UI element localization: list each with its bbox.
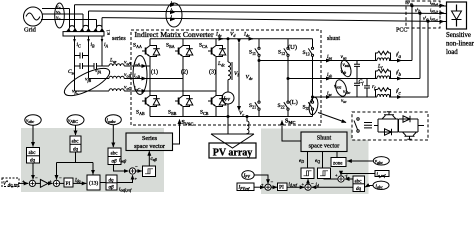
wire injection leg A xyxy=(101,36,103,66)
svg-text:dq: dq xyxy=(109,179,115,184)
igbt top-left xyxy=(382,112,396,119)
ellipse around S33 xyxy=(308,97,319,116)
abc-dq box 1 xyxy=(27,148,40,164)
divider box3 xyxy=(108,156,121,158)
current arrow i_c xyxy=(170,18,175,20)
svg-text:Series: Series xyxy=(142,135,158,142)
wire shunt to PCC b xyxy=(419,13,421,78)
arrow i_NLc xyxy=(439,21,444,23)
V_dc measure arrow xyxy=(238,43,240,111)
junction line b col2 xyxy=(287,78,289,80)
sensor ellipse v_abc xyxy=(25,115,41,125)
svg-text:PI: PI xyxy=(66,181,71,187)
node PCC a xyxy=(411,5,413,7)
node ellipse v_sab (tilted) xyxy=(339,59,353,78)
inverter column 3 xyxy=(312,39,314,117)
wire box3 to sum3 xyxy=(114,165,129,172)
svg-text:iNL,b: iNL,b xyxy=(430,8,438,15)
node ellipse i_abc xyxy=(166,3,182,27)
sensor ellipse v_abc right xyxy=(373,157,389,165)
amp triangle xyxy=(36,182,41,184)
Vdqref dashed box xyxy=(2,178,19,187)
junction line a col1 xyxy=(258,60,260,62)
wire pv right coil xyxy=(247,117,249,135)
sum2 xyxy=(53,180,59,186)
hysteresis block c_ab xyxy=(143,166,156,177)
current arrow i_oC xyxy=(143,90,146,92)
divider box abc-dq right xyxy=(353,183,365,185)
svg-text:ib: ib xyxy=(171,8,175,14)
svg-text:Shunt: Shunt xyxy=(317,135,332,142)
svg-text:−: − xyxy=(135,164,138,169)
svg-text:SVSC: SVSC xyxy=(182,120,194,126)
current arrow i_oB xyxy=(143,78,146,80)
arrow i_sa xyxy=(327,60,331,62)
svg-text:−: − xyxy=(311,181,314,186)
svg-text:isc: isc xyxy=(327,91,332,97)
svg-text:Vdc: Vdc xyxy=(246,75,253,81)
svg-text:+: + xyxy=(135,176,138,181)
svg-text:S12: S12 xyxy=(278,50,285,56)
svg-text:SAA: SAA xyxy=(133,43,142,49)
wire grid phase b in xyxy=(43,13,84,15)
inverter column 2 xyxy=(287,39,289,117)
abc-dq box right xyxy=(353,176,365,192)
svg-text:vfA: vfA xyxy=(95,68,102,74)
PI box xyxy=(64,178,73,187)
svg-text:(U): (U) xyxy=(288,44,297,51)
svg-text:iA: iA xyxy=(104,42,109,48)
wire injection leg B xyxy=(88,36,90,79)
switch S12 xyxy=(284,47,289,56)
node ellipse v_f (tilted) xyxy=(61,63,113,101)
sensor ellipse i_oabc xyxy=(105,115,121,125)
svg-text:+: + xyxy=(302,182,305,187)
junction top rail Ldc xyxy=(227,38,229,40)
svg-text:+: + xyxy=(49,179,52,184)
svg-text:cαβ: cαβ xyxy=(151,157,157,162)
wire boxA to sum3 xyxy=(117,175,133,182)
wire sum6 to PI2 xyxy=(271,186,277,188)
switch S13 xyxy=(308,47,313,56)
node ellipse v_sbc (tilted) xyxy=(334,78,349,97)
svg-text:id: id xyxy=(316,183,319,188)
pv panel envelope icon xyxy=(211,134,254,148)
svg-text:SCA: SCA xyxy=(199,43,208,49)
control panel gray right xyxy=(261,129,369,195)
wire iq to sum4 xyxy=(345,178,353,180)
svg-text:dq: dq xyxy=(73,148,79,153)
abc-ab box 3 xyxy=(108,148,121,165)
CONTROL LEFT xyxy=(2,115,149,190)
wire grid phase a in xyxy=(42,8,70,10)
wire box1 to sum1 xyxy=(32,163,34,179)
dq-ab box A xyxy=(106,175,117,190)
svg-text:eD: eD xyxy=(299,159,304,164)
svg-text:vsa: vsa xyxy=(341,54,347,60)
series filter inductor Lse A xyxy=(102,65,109,67)
svg-text:isb: isb xyxy=(327,72,332,78)
svg-text:space vector: space vector xyxy=(134,143,165,150)
igbt S_AA xyxy=(142,44,160,58)
ac output line c xyxy=(313,96,378,98)
divider box2 xyxy=(70,143,81,145)
inverter column 1 xyxy=(258,39,260,117)
zone box xyxy=(331,158,346,167)
svg-text:SAB: SAB xyxy=(136,110,145,116)
svg-text:vsab: vsab xyxy=(343,63,351,68)
svg-text:voA: voA xyxy=(124,60,131,66)
switch symbol in box xyxy=(357,118,359,120)
svg-text:Idq: Idq xyxy=(74,179,81,184)
arrow i_fc xyxy=(398,96,402,98)
shunt space vector box xyxy=(301,132,347,152)
arrow I_dc right on rail xyxy=(249,38,253,40)
svg-text:SMC: SMC xyxy=(285,119,296,125)
gate signal S_VSC arrow xyxy=(173,120,180,145)
wire shunt to PCC c xyxy=(427,21,429,97)
svg-text:vsbc: vsbc xyxy=(343,90,351,95)
series filter inductor Lse B xyxy=(89,78,110,80)
wire i_oabc down xyxy=(112,125,114,147)
switch S22 xyxy=(284,101,289,110)
wire id to sum5 xyxy=(312,186,353,188)
svg-text:−: − xyxy=(271,180,274,185)
svg-text:IPV: IPV xyxy=(243,174,251,179)
load box xyxy=(447,2,467,29)
svg-text:dq: dq xyxy=(356,187,362,192)
svg-text:vfB: vfB xyxy=(85,77,92,83)
switch S11 xyxy=(255,47,260,56)
svg-text:vsc: vsc xyxy=(341,99,347,104)
svg-text:(13): (13) xyxy=(89,180,98,187)
wire iabc to abcdq xyxy=(365,186,373,188)
wire 13 to dqab xyxy=(100,182,106,184)
transformer T2 xyxy=(82,14,84,29)
svg-text:ioB: ioB xyxy=(134,73,141,79)
svg-text:voC: voC xyxy=(124,85,131,91)
svg-text:eQ: eQ xyxy=(315,159,320,164)
bidir switch circuit xyxy=(374,119,424,132)
svg-text:SCB: SCB xyxy=(200,110,209,116)
svg-text:iNL,a: iNL,a xyxy=(430,0,438,7)
svg-text:non-linear: non-linear xyxy=(446,41,474,48)
svg-text:−: − xyxy=(35,176,38,181)
wire hys to seriesSV xyxy=(148,151,150,166)
junction line c col3 xyxy=(312,96,314,98)
wire phase c out xyxy=(102,18,446,22)
sum1 xyxy=(29,180,35,186)
svg-text:SBB: SBB xyxy=(168,110,177,116)
wire box2 down split xyxy=(57,152,94,179)
current arrow i_b xyxy=(170,11,175,13)
svg-text:dq: dq xyxy=(30,159,36,164)
svg-text:PV array: PV array xyxy=(213,148,253,159)
hysteresis block e_Q xyxy=(318,168,331,179)
transformer T1 xyxy=(69,9,71,29)
igbt S_AB xyxy=(142,94,160,108)
wire iqref to sum4 xyxy=(341,174,375,176)
svg-text:vsb: vsb xyxy=(341,70,347,75)
switch S33 xyxy=(308,101,313,110)
svg-text:S22: S22 xyxy=(278,103,285,109)
svg-text:ioA: ioA xyxy=(134,61,141,67)
igbt bottom-right xyxy=(403,132,417,139)
svg-text:αβ: αβ xyxy=(112,160,118,165)
svg-text:IPV: IPV xyxy=(223,97,231,102)
wire v_ABC down xyxy=(75,125,77,135)
svg-text:Idc: Idc xyxy=(215,32,222,38)
svg-text:(2): (2) xyxy=(181,69,188,76)
svg-text:iabc: iabc xyxy=(376,184,383,190)
misc junctions and arrows xyxy=(27,38,365,184)
igbt S_CB xyxy=(208,94,226,108)
svg-text:shunt: shunt xyxy=(327,36,340,42)
diode top-right xyxy=(403,116,410,122)
arrow i_sb xyxy=(327,78,331,80)
ac output line a xyxy=(259,60,377,62)
svg-text:S33: S33 xyxy=(303,105,310,111)
svg-text:(L): (L) xyxy=(290,99,298,106)
svg-text:(3): (3) xyxy=(209,69,216,76)
diode bottom-left xyxy=(385,129,392,135)
wire IPV to sum6 xyxy=(254,175,268,184)
divider box1 xyxy=(27,155,40,157)
shunt capacitor Cf bank2 xyxy=(366,79,368,98)
svg-text:S13: S13 xyxy=(303,50,310,56)
filter network Lf rf phase b xyxy=(377,76,390,79)
sum6 xyxy=(265,184,271,190)
rectifier leg 2 xyxy=(182,39,184,117)
sensor ellipse v_ABC xyxy=(67,115,84,125)
sum4 xyxy=(338,176,344,182)
gate signal S_MC arrow xyxy=(282,121,301,142)
svg-text:iC: iC xyxy=(77,42,82,48)
svg-text:series: series xyxy=(112,36,126,42)
current source I_PV xyxy=(222,92,234,104)
arrow i_fb xyxy=(398,78,402,80)
wire PI to 13 xyxy=(73,182,86,184)
capacitor Cse row1 xyxy=(75,55,89,57)
wire sum4 to hysQ xyxy=(324,178,338,180)
pv array box xyxy=(209,143,256,158)
sum3 xyxy=(129,168,135,174)
wire IPVref to sum6 xyxy=(254,186,265,188)
control panel gray left xyxy=(21,128,164,192)
svg-text:S11: S11 xyxy=(249,50,256,56)
svg-text:vsca: vsca xyxy=(334,85,341,90)
sensor ellipse i_abc right xyxy=(373,181,389,189)
svg-text:n:1: n:1 xyxy=(106,30,111,35)
svg-text:abc: abc xyxy=(29,151,37,156)
wire vdqref to sum1 xyxy=(19,182,28,184)
svg-text:αβ: αβ xyxy=(109,186,115,191)
svg-text:iq,ref: iq,ref xyxy=(377,172,387,179)
svg-text:−: − xyxy=(345,174,348,179)
svg-text:Cse: Cse xyxy=(68,69,75,75)
wire phase b out xyxy=(89,11,447,14)
wire shunt to PCC a xyxy=(411,6,413,61)
svg-text:PCC: PCC xyxy=(396,28,407,34)
PCC dashed box xyxy=(406,1,440,28)
eq13 box xyxy=(87,175,100,190)
grid source G1 xyxy=(24,7,43,26)
svg-text:ioαβ: ioαβ xyxy=(119,159,126,164)
svg-text:Grid: Grid xyxy=(24,27,37,34)
svg-text:ioabc: ioabc xyxy=(107,118,116,124)
wire shuntSV eQ xyxy=(322,152,324,168)
arrow S33 to equivalent xyxy=(318,113,346,123)
svg-text:space vector: space vector xyxy=(309,143,340,150)
bidirectional switch equivalent dashed box xyxy=(352,112,428,140)
filter network Lf rf phase a xyxy=(377,58,390,61)
svg-text:PI: PI xyxy=(279,185,284,191)
svg-text:abc: abc xyxy=(355,180,363,185)
igbt S_BB xyxy=(175,94,193,108)
svg-text:Vc: Vc xyxy=(239,111,244,117)
transformer secondary bus xyxy=(63,32,104,36)
wire grid phase c in xyxy=(41,19,97,21)
wire shuntSV eD xyxy=(307,152,309,168)
dc-link inductor Ldc branch xyxy=(227,39,229,62)
abc-dq box 2 xyxy=(70,136,81,152)
svg-text:isa: isa xyxy=(327,54,332,60)
V_l measure bracket xyxy=(231,62,233,80)
PI2 box xyxy=(278,183,288,191)
rectifier leg 1 xyxy=(149,39,151,117)
sum3 to hys xyxy=(136,170,142,172)
current arrow i_a xyxy=(170,4,175,6)
svg-text:S21: S21 xyxy=(249,103,256,109)
svg-text:Indirect Matrix Converter: Indirect Matrix Converter xyxy=(135,31,215,39)
node ellipse i_o (tall) xyxy=(133,56,147,95)
svg-text:vABC: vABC xyxy=(68,118,78,124)
wire v_abc down xyxy=(32,125,34,146)
svg-text:SBA: SBA xyxy=(166,43,175,49)
svg-text:vfC: vfC xyxy=(72,89,79,95)
svg-text:Idc: Idc xyxy=(243,32,250,38)
node PCC c xyxy=(427,20,429,22)
svg-text:ic: ic xyxy=(171,15,175,21)
svg-text:abc: abc xyxy=(111,152,119,157)
capacitor Cse row2 xyxy=(75,65,103,67)
svg-text:Ldc: Ldc xyxy=(217,61,225,67)
svg-text:vabc: vabc xyxy=(26,118,34,124)
igbt S_BA xyxy=(175,44,193,58)
IPV sensor ellipse xyxy=(242,171,254,180)
dc rail top xyxy=(150,38,313,40)
svg-text:ioC: ioC xyxy=(134,86,141,92)
wire vabc to zone xyxy=(347,160,373,162)
svg-text:zone: zone xyxy=(333,162,343,167)
iqref box xyxy=(375,171,389,177)
series filter inductor Lse C xyxy=(75,90,110,92)
PV array xyxy=(209,116,256,159)
IMC dashed enclosure xyxy=(131,30,321,125)
svg-text:−: − xyxy=(59,176,62,181)
equivalence sign xyxy=(364,123,372,128)
IPVref box xyxy=(237,183,254,191)
sum5 xyxy=(305,184,311,190)
igbt S_CA xyxy=(208,44,226,58)
arrow i_fa xyxy=(398,60,402,62)
svg-text:+: + xyxy=(22,179,25,184)
arrow i_NLa xyxy=(439,5,444,7)
svg-text:Lf: Lf xyxy=(377,64,383,70)
svg-text:iNL,c: iNL,c xyxy=(430,16,438,23)
wire shuntSV zone xyxy=(336,152,338,158)
svg-text:iB: iB xyxy=(91,42,96,48)
rectifier leg 3 xyxy=(215,39,217,117)
svg-text:abc: abc xyxy=(72,140,80,145)
switch S21 xyxy=(255,101,260,110)
svg-text:+: + xyxy=(261,182,264,187)
wire sum2 to PI xyxy=(60,182,64,184)
svg-text:Sensitive: Sensitive xyxy=(446,32,471,39)
wire amp to sum2 xyxy=(48,182,53,184)
svg-text:load: load xyxy=(446,49,458,56)
divider boxA xyxy=(106,182,117,184)
shunt capacitor Cf bank1 xyxy=(356,61,358,98)
current arrow i_oA xyxy=(143,65,146,67)
wire sum5 up to hysD xyxy=(307,179,309,184)
filter network Lf rf phase c xyxy=(377,94,390,97)
arrow i_sc xyxy=(327,96,331,98)
svg-text:vabc: vabc xyxy=(375,159,383,165)
arrow I_dc left on rail xyxy=(219,38,223,40)
ac output line b xyxy=(288,78,377,80)
CONTROL RIGHT xyxy=(237,152,389,192)
hysteresis block e_D xyxy=(301,168,314,179)
transformer T3 xyxy=(96,20,98,29)
node PCC b xyxy=(419,12,421,14)
dc rail bottom xyxy=(150,116,313,118)
wire PI2 to sum5 xyxy=(287,186,304,188)
svg-text:vc: vc xyxy=(56,15,60,21)
node ellipse v_abc xyxy=(55,3,65,28)
arrow i_NLb xyxy=(439,12,444,14)
series space vector box xyxy=(126,133,173,151)
svg-text:(1): (1) xyxy=(151,69,158,76)
svg-text:Lse: Lse xyxy=(109,58,117,64)
svg-text:voB: voB xyxy=(124,72,131,78)
svg-text:ia: ia xyxy=(171,0,175,6)
summer signs xyxy=(22,164,348,187)
wire injection leg C xyxy=(74,36,76,91)
svg-text:+: + xyxy=(335,173,338,178)
wire phase a out xyxy=(75,5,447,6)
